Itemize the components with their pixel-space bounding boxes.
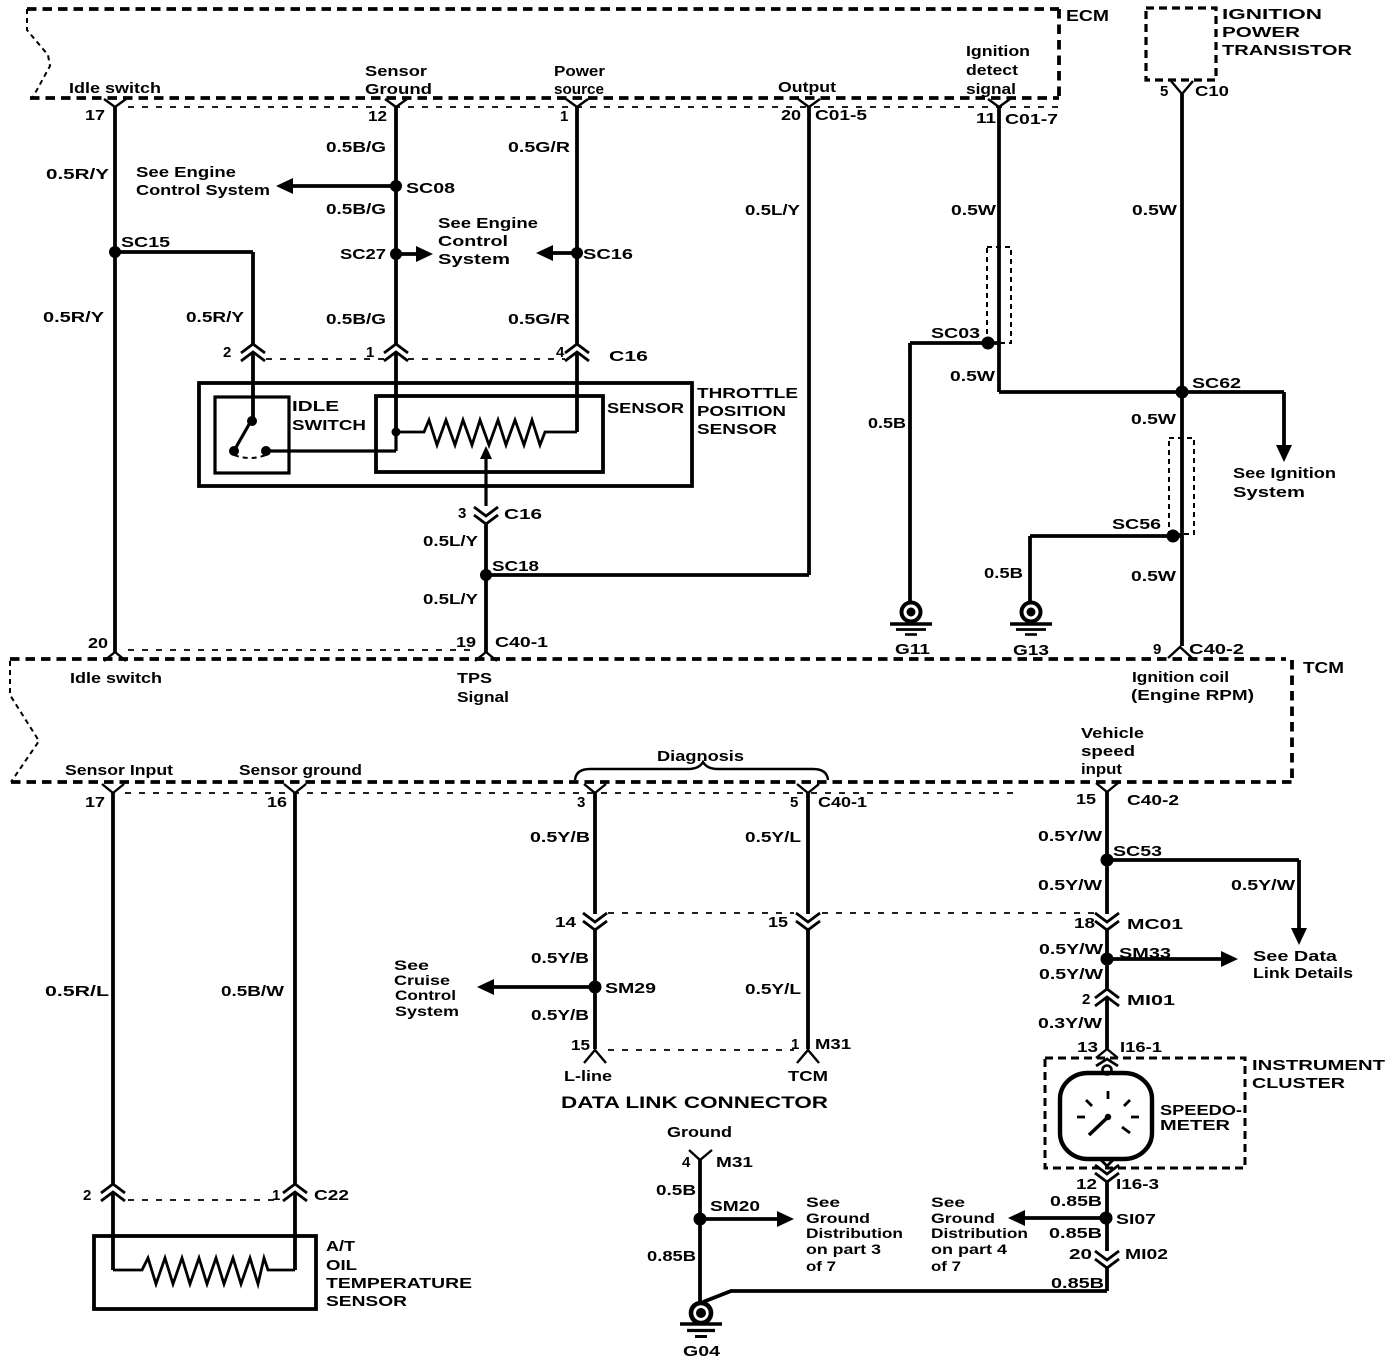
- node SC15: [109, 246, 121, 258]
- svg-text:Ground: Ground: [931, 1211, 995, 1226]
- label See Engine Control System (SC08): [136, 164, 270, 199]
- svg-text:ECM: ECM: [1066, 8, 1109, 25]
- svg-text:16: 16: [267, 794, 287, 811]
- svg-text:1: 1: [560, 108, 568, 125]
- svg-text:Distribution: Distribution: [931, 1226, 1028, 1241]
- wire sensor ground column 0.5B/W: [293, 793, 297, 1270]
- connector pin 20 chevrons MI02: [1095, 1251, 1119, 1268]
- svg-text:1: 1: [366, 344, 374, 361]
- svg-text:Control: Control: [395, 988, 456, 1003]
- svg-text:0.5B/G: 0.5B/G: [326, 201, 386, 218]
- svg-text:20: 20: [781, 107, 801, 124]
- svg-text:THROTTLE: THROTTLE: [697, 385, 798, 402]
- pin label Ignition detect signal (ECM): [966, 43, 1030, 98]
- svg-text:Control System: Control System: [136, 182, 270, 199]
- svg-text:2: 2: [223, 344, 231, 361]
- wire vehicle speed column 0.5Y/W: [1105, 792, 1109, 1049]
- connector C22 pin 1 chevrons: [283, 1184, 307, 1201]
- wire power source column 0.5G/R: [575, 106, 579, 432]
- svg-text:12: 12: [1076, 1176, 1097, 1193]
- svg-text:0.5G/R: 0.5G/R: [508, 139, 570, 156]
- svg-text:SENSOR: SENSOR: [607, 400, 684, 417]
- wire sensor input column 0.5R/L: [111, 793, 115, 1270]
- connector pin 14 chevrons (DLC): [583, 913, 607, 930]
- speedometer face ticks and needle: [1077, 1091, 1139, 1135]
- wire output column 0.5L/Y: [807, 106, 811, 575]
- svg-text:TPS: TPS: [457, 670, 492, 687]
- svg-text:C40-2: C40-2: [1189, 641, 1244, 658]
- svg-text:SC18: SC18: [492, 558, 539, 575]
- idle switch label: [292, 398, 366, 434]
- ground G13: [1010, 603, 1052, 635]
- svg-text:0.5W: 0.5W: [1131, 411, 1177, 428]
- wire pin11 to SC62 horizontal: [999, 390, 1284, 394]
- pin 1 fork (DLC TCM): [797, 1050, 819, 1063]
- wire SC18 to output column: [486, 573, 809, 577]
- svg-text:Control: Control: [438, 233, 508, 250]
- svg-text:17: 17: [85, 107, 105, 124]
- speedometer label: [1160, 1102, 1242, 1134]
- svg-text:SC08: SC08: [406, 180, 455, 197]
- svg-text:Power: Power: [554, 63, 605, 80]
- TCM bottom connector thin dashed row: [125, 792, 1015, 794]
- connector C16 row thin dashed: [266, 358, 565, 360]
- svg-text:input: input: [1081, 761, 1122, 778]
- svg-text:5: 5: [790, 794, 798, 811]
- svg-text:MI01: MI01: [1127, 992, 1175, 1009]
- pin 15 fork (TCM vehicle speed): [1096, 783, 1118, 792]
- svg-text:DATA LINK CONNECTOR: DATA LINK CONNECTOR: [561, 1093, 828, 1112]
- svg-text:0.5Y/B: 0.5Y/B: [530, 829, 590, 846]
- wire M31 ground column: [698, 1160, 702, 1301]
- svg-text:SWITCH: SWITCH: [292, 417, 366, 434]
- svg-text:(Engine RPM): (Engine RPM): [1131, 687, 1254, 704]
- svg-text:SENSOR: SENSOR: [697, 421, 777, 438]
- cluster exit chevrons (I16-3): [1095, 1159, 1119, 1182]
- DLC row thin dashed: [608, 912, 1094, 914]
- wire idle switch output to sensor: [266, 432, 396, 451]
- svg-text:System: System: [395, 1004, 459, 1019]
- cluster entry chevron: [1096, 1059, 1118, 1066]
- pin label Sensor Ground (ECM): [365, 63, 432, 98]
- connector pin 15 chevrons (DLC): [796, 913, 820, 930]
- svg-text:20: 20: [88, 635, 108, 652]
- svg-text:G04: G04: [683, 1343, 721, 1360]
- A/T oil temperature sensor box: [94, 1236, 316, 1309]
- resistor TPS element: [396, 420, 577, 445]
- wire idle switch column 0.5R/Y: [113, 106, 117, 652]
- svg-text:Ground: Ground: [806, 1211, 870, 1226]
- svg-text:15: 15: [768, 914, 788, 931]
- svg-text:Sensor: Sensor: [365, 63, 427, 80]
- pin 11 fork (ECM ignition detect): [988, 99, 1010, 107]
- resistor A/T oil temp element: [113, 1258, 295, 1284]
- svg-text:L-line: L-line: [564, 1068, 612, 1085]
- label See Ground Distribution on part 3 of 7: [806, 1195, 903, 1274]
- svg-text:TRANSISTOR: TRANSISTOR: [1222, 42, 1352, 59]
- svg-text:C22: C22: [314, 1187, 349, 1204]
- svg-text:C10: C10: [1195, 83, 1229, 100]
- wire SC27 arrow right: [396, 246, 433, 262]
- TCM top connector thin dashed row: [128, 649, 474, 651]
- node SC27: [390, 248, 402, 260]
- svg-text:Diagnosis: Diagnosis: [657, 748, 744, 765]
- pin 20 fork (ECM output): [798, 99, 820, 107]
- svg-text:SC27: SC27: [340, 246, 386, 263]
- svg-text:Output: Output: [778, 79, 836, 96]
- wire SC56 branch left: [1030, 536, 1182, 602]
- svg-text:A/T: A/T: [326, 1238, 355, 1255]
- svg-text:0.85B: 0.85B: [1051, 1275, 1104, 1292]
- wire SC08 arrow to engine control system: [276, 178, 396, 194]
- node SC53: [1101, 854, 1114, 867]
- svg-text:POSITION: POSITION: [697, 403, 786, 420]
- svg-text:0.5Y/B: 0.5Y/B: [531, 950, 589, 967]
- connector C16 pin 3 chevrons: [474, 507, 498, 524]
- wire SM29 arrow to cruise control: [477, 979, 595, 995]
- svg-text:19: 19: [456, 634, 476, 651]
- svg-text:G13: G13: [1013, 642, 1049, 659]
- throttle position sensor label: [697, 385, 798, 438]
- ECM connector thin dashed row C01: [128, 106, 1063, 108]
- pin 20 fork (TCM idle switch): [104, 652, 126, 661]
- connector pin 18 chevrons MC01: [1095, 913, 1119, 930]
- wire SC15 branch to idle switch contact: [115, 252, 253, 421]
- svg-text:0.5Y/W: 0.5Y/W: [1038, 877, 1103, 894]
- svg-text:SC62: SC62: [1192, 375, 1241, 392]
- svg-text:See: See: [394, 958, 430, 973]
- svg-text:0.5L/Y: 0.5L/Y: [423, 591, 478, 608]
- svg-text:speed: speed: [1081, 743, 1135, 760]
- node SC56: [1167, 530, 1180, 543]
- node SC16: [571, 247, 583, 259]
- svg-text:SM20: SM20: [710, 1198, 760, 1215]
- node SC03: [982, 337, 995, 350]
- svg-text:System: System: [438, 251, 510, 268]
- node SC18: [480, 569, 492, 581]
- svg-text:0.5W: 0.5W: [1131, 568, 1177, 585]
- label See Ground Distribution on part 4 of 7: [931, 1195, 1028, 1274]
- pin 15 fork (DLC L-line): [584, 1050, 606, 1063]
- svg-text:System: System: [1233, 484, 1305, 501]
- svg-text:15: 15: [1076, 791, 1096, 808]
- node SM33: [1101, 953, 1114, 966]
- svg-text:15: 15: [571, 1037, 590, 1054]
- svg-text:OIL: OIL: [326, 1257, 357, 1274]
- node SM20: [694, 1213, 707, 1226]
- label See Ignition System: [1233, 465, 1336, 501]
- svg-text:17: 17: [85, 794, 105, 811]
- wire SC03 branch left: [910, 343, 999, 602]
- node SC62: [1176, 386, 1189, 399]
- svg-text:Sensor ground: Sensor ground: [239, 762, 362, 779]
- pin 1 fork (ECM power source): [566, 99, 588, 107]
- svg-text:18: 18: [1074, 915, 1095, 932]
- svg-text:SC16: SC16: [583, 246, 633, 263]
- svg-text:0.5B/G: 0.5B/G: [326, 311, 386, 328]
- svg-text:0.5G/R: 0.5G/R: [508, 311, 570, 328]
- svg-text:0.5B/W: 0.5B/W: [221, 983, 285, 1000]
- svg-text:See Engine: See Engine: [438, 215, 538, 232]
- svg-text:M31: M31: [815, 1036, 851, 1053]
- node SM29: [589, 981, 602, 994]
- pin 5 fork (TCM diagnosis): [797, 784, 819, 793]
- svg-text:9: 9: [1153, 641, 1161, 658]
- svg-text:C16: C16: [504, 506, 542, 523]
- svg-text:METER: METER: [1160, 1117, 1230, 1134]
- svg-text:0.5B/G: 0.5B/G: [326, 139, 386, 156]
- pin 19 fork (TCM TPS signal): [475, 652, 497, 661]
- svg-text:14: 14: [555, 914, 577, 931]
- svg-text:12: 12: [368, 108, 387, 125]
- pin 17 fork (TCM sensor input): [102, 784, 124, 793]
- svg-text:0.5B: 0.5B: [656, 1182, 696, 1199]
- pin 4 fork (M31 ground): [689, 1150, 712, 1160]
- wire sensor ground column 0.5B/G: [394, 106, 398, 432]
- svg-text:20: 20: [1069, 1246, 1092, 1263]
- diagnosis brace: [575, 762, 828, 780]
- pin 5 fork (ignition power transistor): [1171, 81, 1193, 94]
- wiper arrow of TPS: [480, 446, 492, 506]
- svg-text:13: 13: [1077, 1039, 1098, 1056]
- DLC wire pin 5 column 0.5Y/L: [806, 793, 810, 1049]
- svg-text:0.5Y/L: 0.5Y/L: [745, 829, 801, 846]
- svg-text:See Ignition: See Ignition: [1233, 465, 1336, 482]
- svg-text:CLUSTER: CLUSTER: [1252, 1075, 1345, 1092]
- svg-text:Sensor Input: Sensor Input: [65, 762, 173, 779]
- svg-text:Cruise: Cruise: [394, 973, 451, 988]
- pin 13 fork (I16-1): [1096, 1049, 1118, 1058]
- svg-text:See Data: See Data: [1253, 948, 1338, 965]
- wire SM33 arrow right: [1107, 951, 1238, 967]
- svg-text:0.5R/Y: 0.5R/Y: [46, 166, 109, 183]
- svg-text:SC53: SC53: [1113, 843, 1162, 860]
- svg-text:source: source: [554, 81, 604, 98]
- svg-text:0.5Y/W: 0.5Y/W: [1039, 941, 1104, 958]
- label See Cruise Control System: [394, 958, 459, 1019]
- svg-text:See Engine: See Engine: [136, 164, 236, 181]
- ground G11: [890, 603, 932, 635]
- svg-text:MC01: MC01: [1127, 916, 1183, 933]
- svg-text:0.5L/Y: 0.5L/Y: [423, 533, 478, 550]
- wire speedometer ground 0.85B: [703, 1182, 1107, 1302]
- svg-text:See: See: [806, 1195, 841, 1210]
- svg-text:0.85B: 0.85B: [647, 1248, 696, 1265]
- A/T oil temperature sensor label: [326, 1238, 472, 1310]
- wire SC53 arrow to data link details: [1107, 860, 1307, 945]
- wire SC62 arrow down to ignition system: [1276, 392, 1292, 462]
- svg-text:5: 5: [1160, 83, 1168, 100]
- svg-text:0.85B: 0.85B: [1050, 1193, 1102, 1210]
- svg-text:1: 1: [272, 1187, 280, 1204]
- svg-text:4: 4: [682, 1154, 691, 1171]
- svg-text:C01-5: C01-5: [815, 107, 867, 124]
- wire SI07 arrow left: [1008, 1210, 1106, 1226]
- connector C22 pin 2 chevrons: [101, 1184, 125, 1201]
- svg-text:detect: detect: [966, 62, 1018, 79]
- svg-text:I16-3: I16-3: [1116, 1176, 1159, 1193]
- label See Data Link Details: [1253, 948, 1353, 982]
- svg-text:IDLE: IDLE: [292, 398, 339, 415]
- svg-text:See: See: [931, 1195, 966, 1210]
- dashed option box at SC03: [987, 247, 1011, 343]
- pin label Vehicle speed input: [1081, 725, 1144, 778]
- svg-text:INSTRUMENT: INSTRUMENT: [1252, 1057, 1385, 1074]
- svg-text:SENSOR: SENSOR: [326, 1293, 407, 1310]
- svg-text:0.5W: 0.5W: [950, 368, 996, 385]
- svg-text:2: 2: [83, 1187, 91, 1204]
- pin label Ignition coil (Engine RPM): [1131, 669, 1254, 704]
- sensor box (TPS element): [376, 396, 603, 472]
- svg-text:0.5W: 0.5W: [1132, 202, 1178, 219]
- svg-text:0.5R/Y: 0.5R/Y: [186, 309, 244, 326]
- svg-text:of 7: of 7: [806, 1259, 836, 1274]
- wire ignition detect column 0.5W: [997, 106, 1001, 392]
- pin 9 fork (TCM ignition coil): [1168, 647, 1192, 658]
- svg-text:TCM: TCM: [788, 1068, 828, 1085]
- svg-text:1: 1: [791, 1036, 799, 1053]
- svg-text:3: 3: [458, 505, 466, 522]
- speedometer gauge body: [1060, 1073, 1152, 1159]
- connector pin 2 chevrons MI01: [1095, 989, 1119, 1006]
- ignition power transistor label: [1222, 6, 1352, 59]
- node SC08: [390, 180, 402, 192]
- svg-text:0.5R/Y: 0.5R/Y: [43, 309, 104, 326]
- instrument cluster label: [1252, 1057, 1385, 1092]
- svg-text:Vehicle: Vehicle: [1081, 725, 1144, 742]
- svg-text:0.85B: 0.85B: [1049, 1225, 1102, 1242]
- svg-text:SC56: SC56: [1112, 516, 1161, 533]
- svg-text:C16: C16: [609, 348, 648, 365]
- cluster entry terminal circle: [1103, 1066, 1112, 1075]
- throttle position sensor outer box: [199, 383, 692, 486]
- svg-text:SC15: SC15: [121, 234, 170, 251]
- svg-text:G11: G11: [895, 641, 930, 658]
- svg-text:SC03: SC03: [931, 325, 980, 342]
- svg-text:0.5Y/L: 0.5Y/L: [745, 981, 801, 998]
- svg-text:TCM: TCM: [1303, 660, 1344, 677]
- dashed option box at SC56: [1169, 438, 1194, 534]
- pin 17 fork (ECM idle switch): [104, 99, 126, 107]
- svg-text:SI07: SI07: [1116, 1211, 1156, 1228]
- svg-text:on part 4: on part 4: [931, 1242, 1008, 1257]
- svg-text:0.5B: 0.5B: [868, 415, 906, 432]
- idle switch S1 contacts and arm: [229, 416, 271, 458]
- svg-text:0.5Y/W: 0.5Y/W: [1039, 966, 1104, 983]
- pin label Power source (ECM): [554, 63, 605, 98]
- svg-text:C40-2: C40-2: [1127, 792, 1179, 809]
- instrument cluster dashed box: [1045, 1058, 1245, 1168]
- ground G04: [680, 1303, 722, 1337]
- svg-text:Distribution: Distribution: [806, 1226, 903, 1241]
- idle switch box: [215, 397, 289, 473]
- connector C22 row thin dashed: [128, 1199, 280, 1201]
- svg-text:0.5B: 0.5B: [984, 565, 1023, 582]
- svg-text:Link Details: Link Details: [1253, 965, 1353, 982]
- svg-text:C01-7: C01-7: [1005, 111, 1058, 128]
- DLC bottom row thin dashed: [608, 1049, 794, 1051]
- svg-text:3: 3: [577, 794, 585, 811]
- pin 3 fork (TCM diagnosis): [584, 784, 606, 793]
- label See Engine Control System (center): [438, 215, 538, 268]
- svg-text:C40-1: C40-1: [495, 634, 548, 651]
- svg-text:signal: signal: [966, 81, 1016, 98]
- svg-text:0.5Y/W: 0.5Y/W: [1231, 877, 1296, 894]
- DLC wire pin 3 column 0.5Y/B: [593, 793, 597, 1049]
- node sensor low end: [392, 428, 401, 437]
- svg-text:0.3Y/W: 0.3Y/W: [1038, 1015, 1103, 1032]
- svg-text:Idle switch: Idle switch: [69, 80, 161, 97]
- wire SC16 arrow left: [536, 245, 577, 261]
- svg-text:4: 4: [556, 344, 565, 361]
- svg-text:0.5Y/W: 0.5Y/W: [1038, 828, 1103, 845]
- svg-text:C40-1: C40-1: [818, 794, 867, 811]
- svg-text:0.5W: 0.5W: [951, 202, 997, 219]
- svg-text:0.5Y/B: 0.5Y/B: [531, 1007, 589, 1024]
- wire SM20 arrow right: [700, 1211, 794, 1227]
- svg-text:M31: M31: [716, 1154, 753, 1171]
- ECM box border: [27, 9, 1059, 98]
- svg-text:SM29: SM29: [605, 980, 656, 997]
- svg-text:I16-1: I16-1: [1120, 1039, 1162, 1056]
- ignition power transistor box Q1: [1146, 8, 1216, 80]
- connector C16 pin 1 chevrons: [384, 344, 408, 361]
- pin 12 fork (ECM sensor ground): [385, 99, 407, 107]
- connector C16 pin 4 chevrons: [565, 344, 589, 361]
- pin label TPS Signal: [457, 670, 509, 706]
- svg-text:Ground: Ground: [667, 1124, 732, 1141]
- pin 16 fork (TCM sensor ground): [284, 784, 306, 793]
- svg-text:Ignition coil: Ignition coil: [1132, 669, 1229, 686]
- wire ignition coil column 0.5W (C10): [1180, 94, 1184, 646]
- connector C16 pin 2 chevrons: [241, 344, 265, 361]
- svg-text:MI02: MI02: [1125, 1246, 1168, 1263]
- svg-text:0.5R/L: 0.5R/L: [45, 983, 109, 1000]
- svg-text:Ground: Ground: [365, 81, 432, 98]
- svg-text:IGNITION: IGNITION: [1222, 6, 1322, 23]
- svg-text:2: 2: [1082, 991, 1090, 1008]
- svg-text:TEMPERATURE: TEMPERATURE: [326, 1275, 472, 1292]
- svg-text:on part 3: on part 3: [806, 1242, 882, 1257]
- svg-text:POWER: POWER: [1222, 24, 1300, 41]
- svg-text:Idle switch: Idle switch: [70, 670, 162, 687]
- TCM box border: [10, 659, 1292, 782]
- svg-text:11: 11: [976, 110, 996, 127]
- svg-text:Ignition: Ignition: [966, 43, 1030, 60]
- svg-text:of 7: of 7: [931, 1259, 961, 1274]
- node SI07: [1100, 1212, 1113, 1225]
- svg-text:Signal: Signal: [457, 689, 509, 706]
- wire TPS signal down: [484, 524, 488, 652]
- svg-text:0.5L/Y: 0.5L/Y: [745, 202, 800, 219]
